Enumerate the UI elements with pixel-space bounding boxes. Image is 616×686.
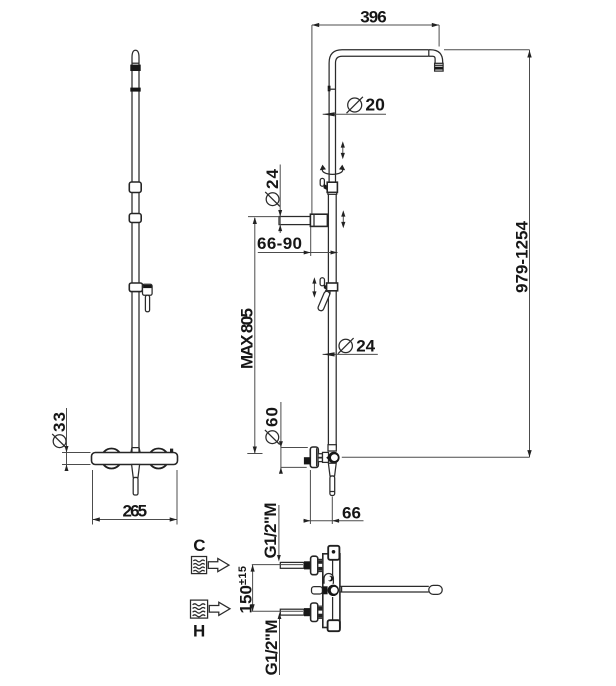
svg-text:979-1254: 979-1254 <box>513 220 532 293</box>
dimension 396 <box>312 8 439 214</box>
front view left knob <box>102 449 122 469</box>
dimension line diameter 33 <box>62 408 91 471</box>
plan view temperature knob <box>312 587 323 594</box>
svg-text:33: 33 <box>50 412 69 432</box>
svg-text:20: 20 <box>365 95 385 115</box>
slider clamp knob upper <box>320 178 328 190</box>
front view mixer body bar <box>92 453 178 465</box>
plan view hot knurled nut <box>318 606 323 618</box>
side view shower head nozzle <box>435 63 444 71</box>
side view valve ring <box>328 452 340 464</box>
front view spout stem <box>133 478 138 496</box>
plan view spout tube <box>340 586 429 592</box>
plan view diverter dome <box>324 574 333 584</box>
svg-text:396: 396 <box>360 8 387 27</box>
plan view top wall tab <box>328 546 339 560</box>
svg-text:24: 24 <box>356 336 375 355</box>
dimension MAX 805 <box>238 217 280 454</box>
side view inlet nut dark <box>304 457 310 464</box>
plan view mixer body bar <box>323 554 340 628</box>
svg-text:66-90: 66-90 <box>257 234 302 253</box>
label diameter 24 upper <box>263 168 282 206</box>
front view riser pipe <box>132 50 139 453</box>
plan view hot inlet nut <box>304 608 311 616</box>
svg-text:C: C <box>193 536 205 555</box>
label diameter 60 <box>263 407 282 445</box>
side view diverter wedge <box>326 454 331 462</box>
side view pipe coupling above valve <box>328 445 336 451</box>
hot water icon <box>191 600 208 618</box>
dimension line diameter 24 upper <box>278 165 282 234</box>
front view hand shower head joint line <box>132 62 140 64</box>
side view handle stem <box>330 476 335 496</box>
plan view cold escutcheon ring <box>311 556 318 575</box>
side view pipe clamp mark <box>328 86 336 92</box>
leader line diameter 24 lower <box>323 352 378 356</box>
label diameter 24 lower <box>338 336 376 355</box>
label diameter 33 <box>50 412 69 449</box>
rotation arrows around pipe <box>320 165 345 175</box>
dimension line diameter 60 <box>279 402 308 474</box>
front view hand shower handle shaft <box>145 295 149 312</box>
label H hot <box>193 621 205 640</box>
side view handle cone <box>328 463 336 476</box>
svg-text:H: H <box>193 621 205 640</box>
side view riser pipe lower section <box>328 188 336 448</box>
svg-text:24: 24 <box>263 168 282 189</box>
side view knurled rings <box>318 454 323 462</box>
label G1/2M cold <box>261 503 281 562</box>
front view slider holder block <box>129 283 142 292</box>
front view lower coupling <box>129 214 141 223</box>
plan view cold knurled nut <box>318 559 323 571</box>
front view pipe dark ring <box>130 88 140 92</box>
dimension 66 <box>303 470 363 524</box>
cold water icon <box>192 557 207 574</box>
plan view cold inlet nut <box>304 561 311 569</box>
front view spout cone <box>132 465 140 478</box>
front view hand shower dark band <box>130 65 140 71</box>
plan view bottom wall tab <box>328 620 340 631</box>
holder block side <box>327 283 338 291</box>
side view riser pipe upper section with top bend <box>329 50 429 190</box>
up-down adjust arrow at holder <box>312 277 316 297</box>
side view shower arm elbow <box>429 50 443 64</box>
front view aerator screw <box>170 449 173 453</box>
dimension 66-90 <box>257 227 338 256</box>
up-down adjust arrow top <box>341 141 345 159</box>
svg-text:G1/2"M: G1/2"M <box>262 620 281 676</box>
plan view hot inlet pipe <box>280 609 304 615</box>
leader line diameter 20 <box>323 112 386 116</box>
slider block upper <box>327 182 337 194</box>
wall bracket arm tube <box>279 217 311 225</box>
dimension 265 <box>93 470 178 525</box>
dimension 979-1254 <box>342 50 532 458</box>
label diameter 20 <box>347 95 386 115</box>
label G1/2M hot <box>262 613 281 676</box>
hand shower handle side <box>317 290 330 311</box>
side view valve body <box>323 452 329 462</box>
side view shower arm joint <box>428 50 430 56</box>
front view right knob <box>149 449 169 469</box>
plan view valve dark ring <box>322 585 339 596</box>
side view wall flange <box>310 447 318 468</box>
front view upper coupling <box>129 182 141 193</box>
plan view cold inlet pipe <box>280 562 304 568</box>
dimension 150 with tolerance <box>237 565 304 614</box>
cold flow arrow <box>208 559 229 572</box>
up-down adjust arrow at bracket <box>341 210 345 228</box>
holder clamp knob side <box>320 278 328 291</box>
svg-text:265: 265 <box>123 502 148 521</box>
svg-text:66: 66 <box>342 504 361 523</box>
wall bracket block <box>310 214 327 226</box>
hot flow arrow <box>209 602 230 615</box>
svg-text:MAX 805: MAX 805 <box>238 308 257 369</box>
svg-text:G1/2"M: G1/2"M <box>261 503 280 559</box>
front view hand shower grip <box>143 284 153 295</box>
plan view hot escutcheon ring <box>311 603 318 622</box>
label C cold <box>193 536 205 555</box>
front view pipe base flare <box>131 448 140 453</box>
svg-text:60: 60 <box>263 407 282 427</box>
plan view spout tip <box>429 585 442 594</box>
